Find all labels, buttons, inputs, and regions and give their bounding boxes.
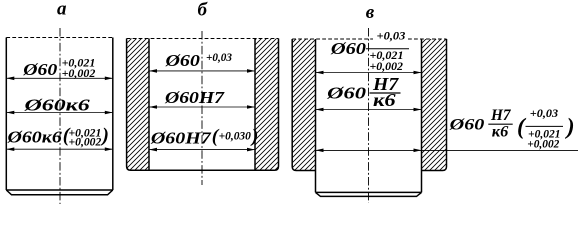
- svg-text:Ø60H7: Ø60H7: [164, 88, 226, 107]
- svg-text:Ø60: Ø60: [330, 39, 367, 58]
- svg-text:H7: H7: [490, 107, 512, 124]
- svg-text:Ø60: Ø60: [22, 60, 58, 79]
- svg-text:): ): [565, 114, 575, 140]
- svg-text:в: в: [366, 2, 375, 23]
- svg-text:+0,03: +0,03: [377, 30, 406, 42]
- svg-text:Ø60: Ø60: [326, 84, 367, 103]
- svg-text:б: б: [197, 0, 208, 21]
- svg-text:Ø60к6: Ø60к6: [6, 127, 62, 146]
- svg-text:Ø60: Ø60: [164, 51, 200, 70]
- svg-text:к6: к6: [373, 90, 396, 110]
- svg-text:): ): [250, 126, 258, 147]
- svg-text:+0,002: +0,002: [527, 139, 559, 151]
- svg-text:Ø60к6: Ø60к6: [23, 96, 90, 115]
- svg-text:к6: к6: [492, 123, 509, 140]
- svg-text:а: а: [57, 0, 67, 20]
- svg-text:+0,03: +0,03: [206, 50, 232, 64]
- svg-text:+0,002: +0,002: [62, 66, 96, 80]
- svg-text:Ø60: Ø60: [448, 117, 484, 134]
- svg-text:+0,002: +0,002: [69, 136, 102, 148]
- svg-text:Ø60H7: Ø60H7: [150, 129, 213, 148]
- svg-text:+0,030: +0,030: [219, 131, 252, 143]
- svg-text:+0,002: +0,002: [370, 61, 404, 73]
- svg-text:+0,03: +0,03: [530, 108, 559, 120]
- svg-text:): ): [100, 124, 109, 146]
